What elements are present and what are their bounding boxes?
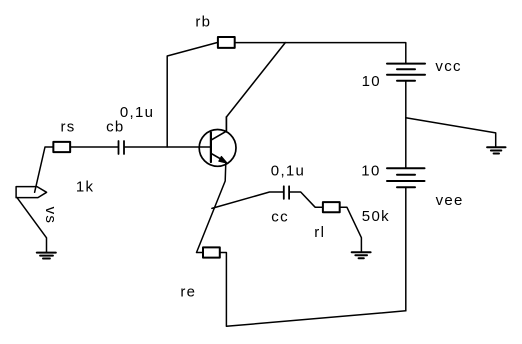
svg-text:10: 10	[362, 73, 381, 90]
value 0,1u (cc)	[271, 163, 305, 180]
wire vee to bottom rail	[405, 187, 407, 310]
value 50k	[362, 208, 390, 225]
label vee	[436, 192, 464, 209]
capacitor cc	[284, 186, 289, 199]
svg-text:rs: rs	[61, 118, 76, 135]
wire rs to cb	[71, 146, 118, 148]
svg-text:rl: rl	[314, 224, 325, 241]
wire emitter node to cc	[212, 192, 283, 208]
resistor rs	[53, 142, 70, 152]
svg-text:vee: vee	[436, 192, 464, 209]
label rb	[195, 13, 211, 30]
wire rl to ground	[341, 207, 362, 252]
battery vee	[387, 168, 425, 187]
wire node to ground (mid)	[406, 118, 496, 147]
svg-text:10: 10	[361, 163, 380, 180]
wire bottom rail	[221, 253, 406, 327]
ground (mid)	[487, 147, 505, 153]
ground (rl)	[352, 252, 371, 258]
wire rb to vcc	[236, 43, 406, 64]
wire base node to rb	[167, 43, 217, 147]
svg-text:vs: vs	[42, 207, 59, 225]
label vcc	[435, 58, 461, 75]
svg-text:0,1u: 0,1u	[271, 163, 305, 180]
capacitor cb	[119, 141, 125, 154]
wire cb to base	[125, 146, 211, 148]
svg-text:cc: cc	[271, 208, 289, 225]
label cc	[271, 208, 289, 225]
resistor re	[203, 247, 220, 257]
svg-text:rb: rb	[195, 13, 211, 30]
svg-text:50k: 50k	[362, 208, 390, 225]
value 10 (vee)	[361, 163, 380, 180]
svg-text:re: re	[180, 284, 196, 301]
wire vs to rs	[35, 147, 53, 192]
wire emitter to re	[197, 163, 226, 253]
transistor q1	[199, 117, 236, 166]
value 1k	[76, 178, 94, 195]
svg-text:0,1u: 0,1u	[120, 104, 154, 121]
svg-text:1k: 1k	[76, 178, 94, 195]
value 10 (vcc)	[362, 73, 381, 90]
value 0,1u (cb)	[120, 104, 154, 121]
label cb	[106, 118, 124, 135]
label re	[180, 284, 196, 301]
resistor rb	[218, 37, 235, 48]
ground (vs)	[37, 253, 56, 259]
wire cc to rl	[290, 192, 322, 207]
wire vcc to vee	[405, 81, 407, 169]
resistor rl	[323, 202, 340, 212]
wire vs to ground	[17, 198, 47, 253]
battery vcc	[387, 64, 425, 81]
svg-text:cb: cb	[106, 118, 124, 135]
label rs	[61, 118, 76, 135]
voltage source vs	[16, 187, 46, 198]
svg-text:vcc: vcc	[435, 58, 461, 75]
label rl	[314, 224, 325, 241]
wire collector to rb node	[226, 43, 285, 117]
label vs	[42, 207, 59, 225]
